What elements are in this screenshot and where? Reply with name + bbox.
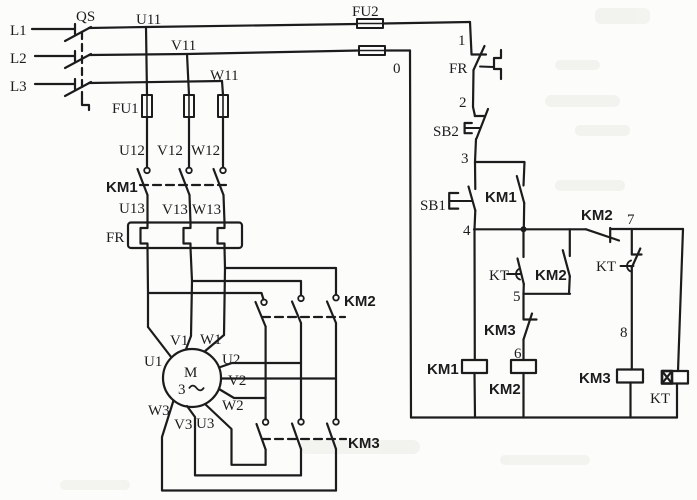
contactor KM1 main contact V blade [180, 169, 190, 195]
svg-text:1: 1 [458, 33, 466, 49]
wire bus V11 to control line 0 [385, 49, 410, 51]
contactor KM3 NC contact blade [524, 314, 533, 340]
wire node 6 [522, 340, 524, 361]
svg-text:KT: KT [489, 268, 509, 284]
control line 1 vertical top [470, 22, 472, 54]
FR actuator link dash [480, 66, 494, 69]
svg-text:V13: V13 [162, 202, 188, 218]
wire node 8 [631, 268, 633, 370]
svg-text:L2: L2 [10, 51, 27, 67]
coil KM3 [617, 370, 643, 383]
contactor KM3 contact 2 fixed circle [298, 419, 304, 425]
contactor KM2 aux contact blade [563, 250, 570, 276]
svg-text:V1: V1 [170, 333, 188, 349]
wire node 7 to KT NC contact [631, 229, 633, 255]
svg-text:W11: W11 [210, 68, 239, 84]
wire U13 [146, 195, 148, 223]
svg-text:3: 3 [178, 382, 186, 398]
contactor KM3 contact 1 blade [257, 424, 266, 450]
button SB2 wire [473, 107, 475, 116]
contactor KM2 contact 3 blade [327, 302, 336, 324]
wire KM2 coil to rail [522, 373, 524, 418]
wire KM1 aux to node 4 [523, 203, 526, 229]
wire motor lead V3 loop to KM3 contact 2 [187, 406, 301, 475]
wire KT NO to node 5 [522, 284, 524, 294]
wire W12 [222, 117, 224, 168]
svg-text:8: 8 [620, 325, 628, 341]
svg-text:KT: KT [650, 391, 670, 407]
contactor KM2 linkage dashed [262, 316, 345, 318]
svg-text:L1: L1 [10, 23, 27, 39]
fuse FU2 lower [359, 46, 385, 55]
wire bus U11 [89, 24, 357, 28]
svg-text:U12: U12 [119, 143, 145, 159]
wire W phase below FR [224, 248, 225, 335]
wire U12 [146, 117, 148, 168]
svg-text:FR: FR [106, 230, 124, 246]
wire node 3 branch to KM1 aux [475, 162, 525, 186]
button SB2 tick [475, 115, 484, 117]
svg-text:KM1: KM1 [106, 179, 138, 196]
svg-text:KM2: KM2 [535, 267, 567, 284]
fuse FU1 phase U [142, 95, 152, 117]
svg-text:U11: U11 [136, 12, 161, 28]
wire KT coil to rail [676, 384, 678, 418]
contactor KM1 aux contact blade [517, 176, 524, 203]
svg-text:V12: V12 [157, 143, 183, 159]
svg-text:FR: FR [449, 61, 467, 77]
wire KM3 contact stubs to loops [265, 450, 267, 465]
svg-text:KM3: KM3 [579, 370, 611, 387]
wire V11 vertical [187, 54, 189, 95]
wire tap V phase to KM2 [192, 281, 301, 296]
wire KM1 coil branch [473, 229, 475, 360]
svg-text:7: 7 [627, 212, 635, 228]
wire L2 input [35, 55, 75, 57]
svg-text:V2: V2 [228, 373, 246, 389]
wire motor lead U3 loop to KM3 contact 1 [205, 404, 266, 465]
svg-text:L3: L3 [10, 79, 27, 95]
wire V13 [190, 195, 191, 223]
wire tap U phase to KM2 [148, 293, 264, 300]
contactor KM3 contact 2 blade [292, 424, 301, 450]
time relay KT NO contact blade [518, 259, 524, 285]
contactor KM2 contact 3 fixed circle [333, 295, 339, 301]
svg-text:U1: U1 [144, 354, 162, 370]
wire column 2 KM2 to KM3 [300, 323, 302, 419]
wire motor lead V1 [186, 336, 192, 351]
contactor KM2 contact 1 fixed circle [261, 300, 267, 306]
wire motor lead V2 [221, 377, 336, 379]
contactor KM2 NC interlock tick [609, 228, 611, 242]
wire motor lead W2 [219, 389, 266, 398]
svg-text:W1: W1 [200, 332, 222, 348]
wire right rail [678, 229, 683, 371]
svg-text:QS: QS [76, 9, 95, 25]
wire motor lead U2 [219, 363, 301, 368]
coil KM2 [511, 360, 536, 373]
svg-text:W13: W13 [192, 202, 221, 218]
svg-text:KM3: KM3 [348, 435, 380, 452]
wire column 1 KM2 to KM3 [265, 327, 267, 420]
svg-text:3: 3 [461, 151, 469, 167]
wire U phase below FR [146, 248, 149, 327]
svg-text:KM2: KM2 [581, 207, 613, 224]
wire node 5 to KM3 NC [522, 294, 524, 320]
fuse FU2 upper [357, 19, 383, 28]
svg-text:4: 4 [463, 223, 471, 239]
svg-text:FU2: FU2 [352, 4, 379, 20]
time relay KT NC contact tick [632, 253, 642, 255]
FR heater element V [184, 223, 191, 249]
coil KT [662, 371, 688, 384]
contactor KM3 contact 3 blade [327, 424, 336, 450]
wire V12 [188, 117, 190, 168]
time relay KT NC delay arc [627, 261, 631, 272]
wire KM2 aux to node 5 [568, 276, 571, 294]
wire W11 vertical [222, 81, 223, 95]
FR thermal actuator symbol [494, 50, 501, 79]
wire KT NO branch from node 4 [522, 229, 524, 257]
QS terminal tick L1 [74, 24, 76, 34]
svg-text:2: 2 [459, 95, 467, 111]
wire node 7 row [611, 228, 683, 230]
wire node 2 to 3 [475, 139, 476, 162]
node 4 junction dot [521, 226, 527, 232]
FR heater element W [218, 223, 225, 249]
wire L3 input [35, 83, 75, 85]
QS terminal tick L2 [74, 51, 76, 61]
contactor KM1 linkage dashed [140, 184, 228, 186]
wire U11 vertical [146, 27, 147, 95]
button SB1 blade [469, 187, 476, 211]
coil KM1 [462, 360, 487, 373]
svg-text:KM1: KM1 [485, 189, 517, 206]
contactor KM1 main contact W blade [214, 169, 224, 195]
svg-text:FU1: FU1 [112, 101, 139, 117]
FR heater element U [141, 223, 148, 249]
wire control line 0 [410, 51, 411, 418]
button SB2 blade [477, 109, 489, 139]
wire KM3 coil to rail [629, 383, 631, 418]
svg-text:SB1: SB1 [420, 198, 446, 214]
contactor KM3 contact 3 fixed circle [333, 419, 339, 425]
fuse FU1 phase V [184, 95, 194, 117]
time relay KT NO delay arc [516, 269, 520, 280]
wire bus V11 [89, 51, 359, 56]
contactor KM1 main contact W fixed circle [220, 168, 226, 174]
wire bus U11 to control line 1 [383, 22, 470, 24]
contactor KM3 contact 1 fixed circle [263, 419, 269, 425]
contactor KM1 main contact U fixed circle [144, 168, 150, 174]
svg-text:5: 5 [513, 289, 521, 305]
contactor KM3 NC contact tick [524, 318, 537, 320]
fuse FU1 phase W [218, 95, 228, 117]
QS blade pole 1 [65, 27, 91, 41]
wire motor lead U1 [148, 327, 172, 358]
contactor KM2 contact 2 fixed circle [298, 296, 304, 302]
contactor KM2 contact 2 blade [292, 302, 301, 324]
wire V phase below FR [191, 248, 193, 336]
svg-text:W12: W12 [191, 143, 220, 159]
wire L1 input [32, 28, 75, 30]
svg-text:U3: U3 [196, 416, 214, 432]
wire node 5 row [524, 293, 571, 295]
svg-text:M: M [184, 365, 197, 381]
wire node 3 to SB1 [474, 162, 476, 189]
svg-text:U13: U13 [119, 201, 145, 217]
contactor KM1 main contact U blade [138, 169, 148, 195]
svg-text:KM1: KM1 [427, 361, 459, 378]
wire node 1 to 2 [472, 70, 475, 107]
QS linkage dashed [81, 32, 83, 99]
svg-text:U2: U2 [222, 352, 240, 368]
button SB2 actuator [465, 123, 472, 133]
svg-text:6: 6 [514, 346, 522, 362]
time relay KT NC contact blade [632, 249, 641, 268]
svg-text:KM2: KM2 [489, 381, 521, 398]
wire motor lead W3 loop to KM3 contact 3 [162, 401, 336, 491]
wire column 3 KM2 to KM3 [335, 323, 337, 419]
svg-text:KT: KT [596, 259, 616, 275]
svg-text:KM3: KM3 [484, 322, 516, 339]
wire tap W phase to KM2 [225, 268, 336, 295]
contactor KM2 contact 1 blade [256, 302, 266, 327]
wire W13 [224, 195, 225, 223]
wire motor lead W1 [204, 335, 224, 352]
contactor KM3 linkage dashed [262, 438, 346, 440]
motor M circle [163, 349, 221, 407]
QS blade pole 2 [65, 54, 91, 68]
wire KM1 coil to rail [473, 373, 476, 418]
svg-text:0: 0 [393, 61, 401, 77]
thermal relay FR heater box [128, 223, 242, 249]
QS handle hook [82, 99, 89, 110]
button SB1 actuator [449, 193, 458, 209]
svg-text:V11: V11 [171, 38, 196, 54]
svg-text:V3: V3 [174, 417, 192, 433]
FR NC contact blade [474, 46, 485, 70]
wire KM2 aux branch from node 4 row [569, 229, 571, 256]
wire SB1 to node 4 [473, 211, 476, 230]
QS terminal tick L3 [74, 79, 76, 89]
wire bottom rail [411, 416, 677, 418]
wire bus W11 [89, 81, 222, 83]
wire node 4 row [474, 228, 586, 230]
contactor KM1 main contact V fixed circle [186, 168, 192, 174]
svg-text:SB2: SB2 [433, 124, 459, 140]
svg-text:W3: W3 [148, 403, 170, 419]
FR NC contact tick [472, 53, 487, 55]
svg-text:KM2: KM2 [344, 293, 376, 310]
QS blade pole 3 [65, 82, 91, 96]
svg-text:W2: W2 [222, 398, 244, 414]
contactor KM2 NC interlock blade [586, 229, 619, 240]
